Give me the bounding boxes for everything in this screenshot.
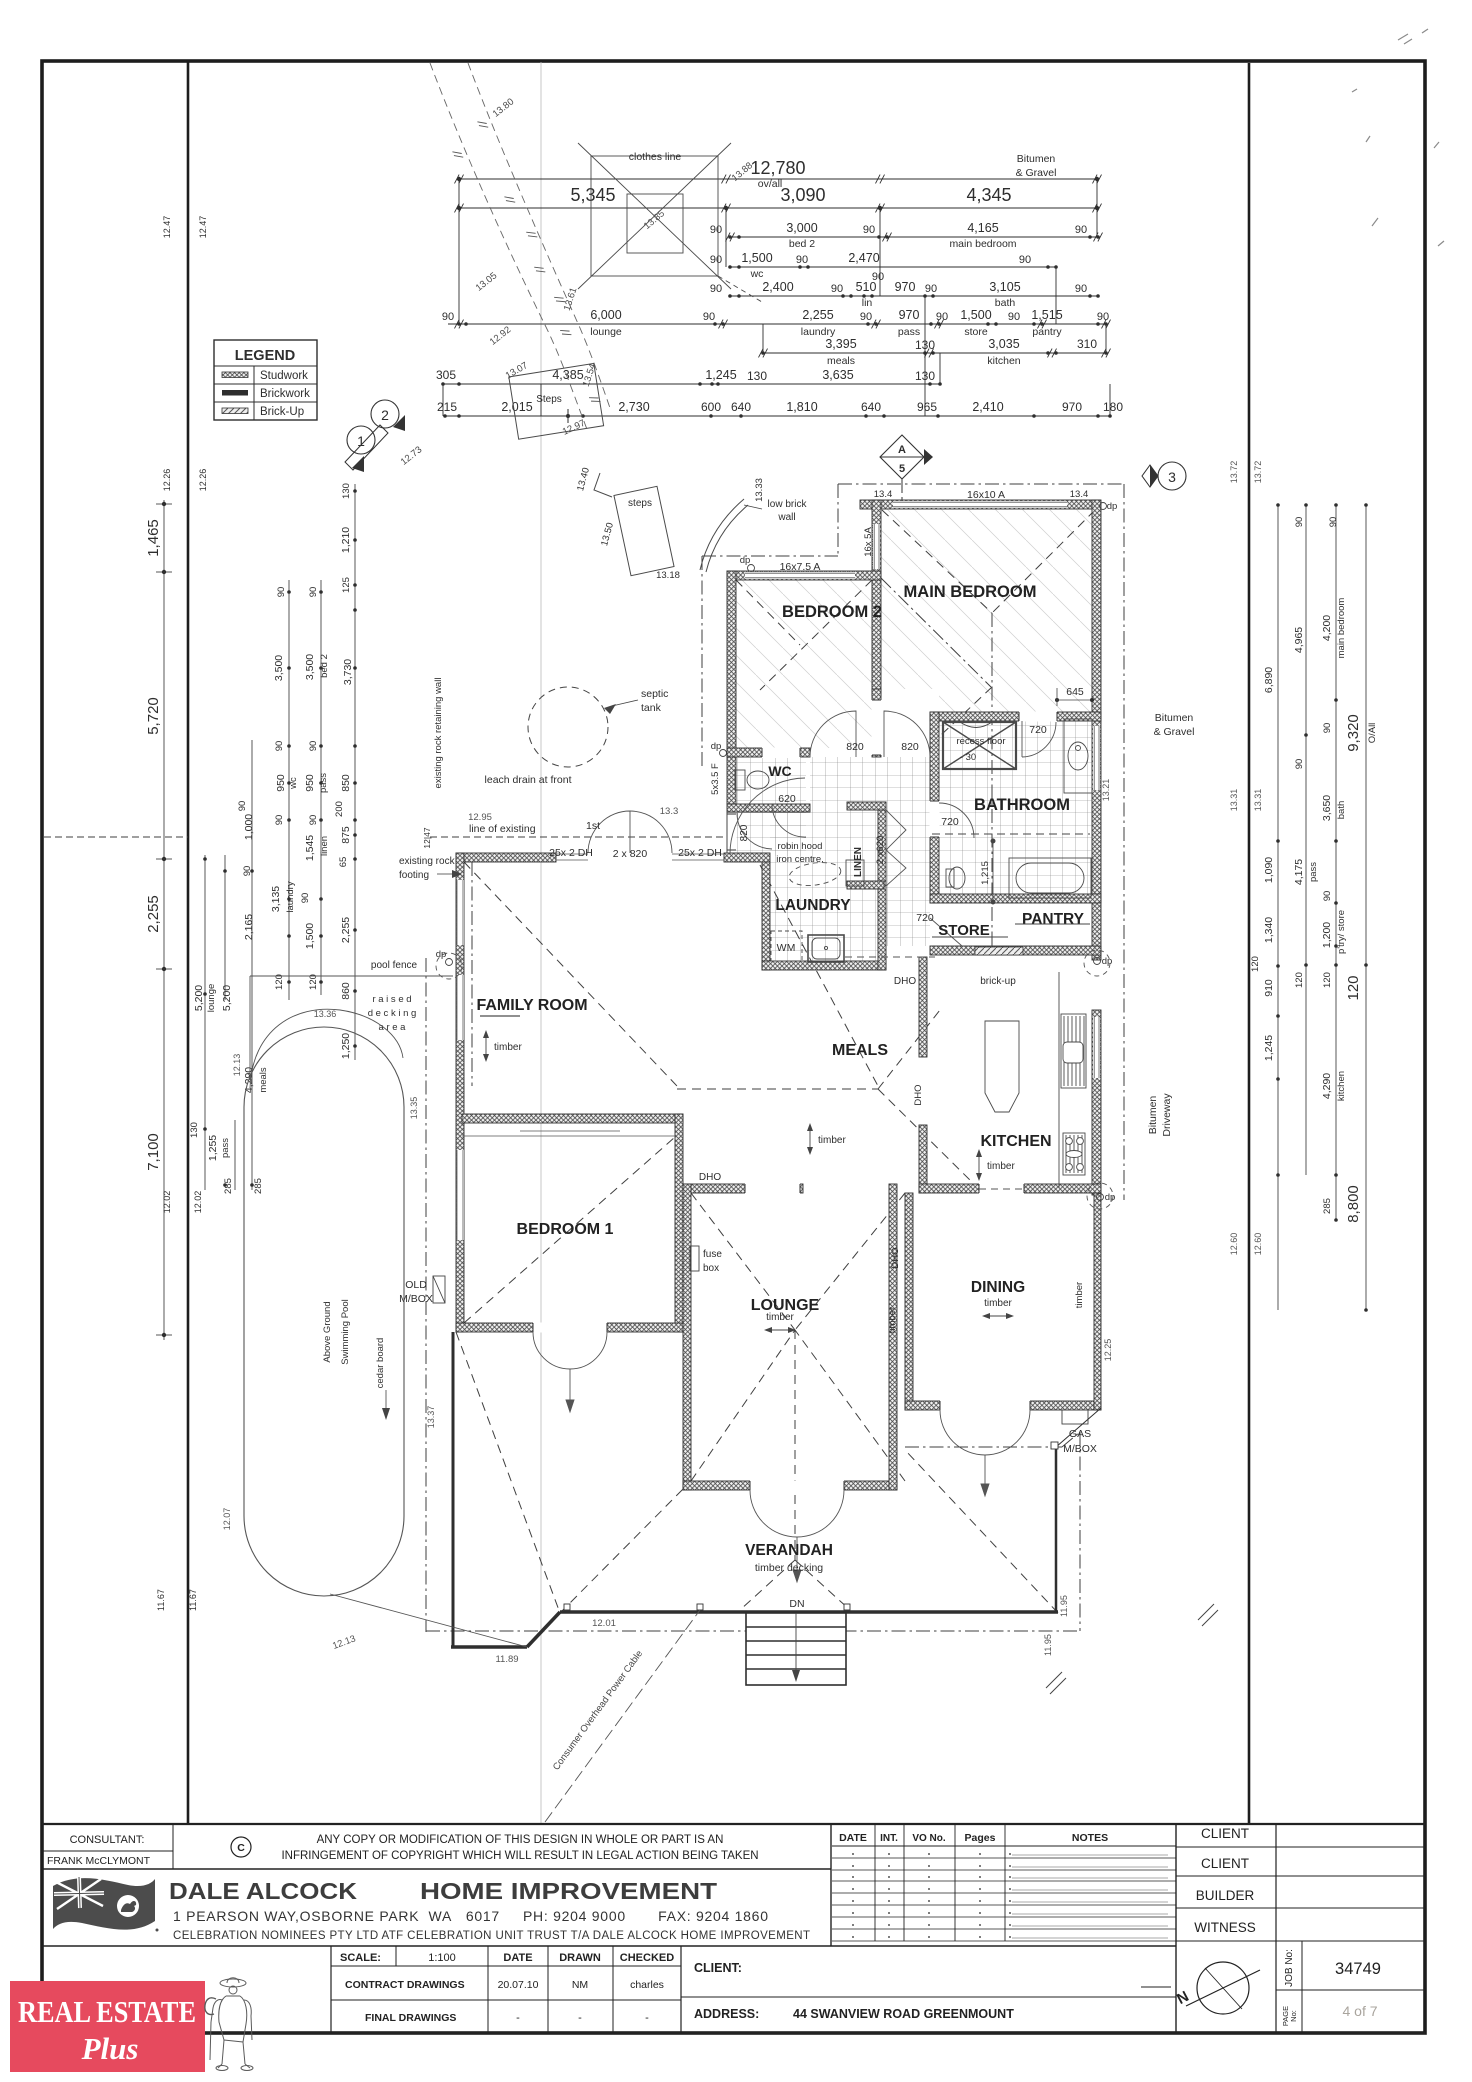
client address bbox=[694, 1961, 1014, 2021]
svg-text:13.21: 13.21 bbox=[1101, 779, 1111, 802]
carpet hatch bedroom 2 bbox=[736, 580, 872, 748]
svg-text:charles: charles bbox=[630, 1979, 664, 1991]
svg-text:1,500: 1,500 bbox=[960, 308, 991, 322]
svg-text:125: 125 bbox=[341, 577, 352, 593]
job number bbox=[1281, 1949, 1381, 2026]
svg-text:5: 5 bbox=[899, 463, 905, 475]
bathroom details bbox=[932, 722, 1090, 937]
svg-text:16x 5A: 16x 5A bbox=[863, 527, 874, 557]
svg-text:No:: No: bbox=[1289, 2010, 1298, 2022]
top dimension line-work bbox=[443, 179, 1110, 416]
svg-text:13.4: 13.4 bbox=[874, 489, 893, 500]
svg-text:LINEN: LINEN bbox=[853, 847, 864, 877]
svg-text:C: C bbox=[237, 1842, 245, 1854]
svg-text:DATE: DATE bbox=[839, 1832, 867, 1844]
svg-text:13.31: 13.31 bbox=[1253, 789, 1263, 812]
svg-text:dp: dp bbox=[1107, 501, 1118, 512]
svg-text:310: 310 bbox=[1077, 337, 1097, 351]
wc south wall bbox=[727, 804, 810, 812]
svg-text:13.72: 13.72 bbox=[1253, 461, 1263, 484]
svg-text:4 of 7: 4 of 7 bbox=[1342, 2003, 1377, 2019]
bathroom west wall bbox=[930, 712, 939, 903]
svg-text:lounge: lounge bbox=[206, 984, 217, 1013]
svg-text:-: - bbox=[578, 2012, 582, 2024]
svg-text:& Gravel: & Gravel bbox=[1016, 167, 1057, 179]
svg-text:2,255: 2,255 bbox=[802, 308, 833, 322]
svg-text:lin: lin bbox=[862, 297, 873, 309]
svg-text:90: 90 bbox=[1019, 254, 1031, 266]
svg-text:BATHROOM: BATHROOM bbox=[974, 796, 1070, 814]
svg-text:Brick-Up: Brick-Up bbox=[260, 406, 304, 418]
svg-text:8,800: 8,800 bbox=[1345, 1185, 1362, 1223]
svg-text:305: 305 bbox=[436, 368, 456, 382]
svg-text:2 x 820: 2 x 820 bbox=[613, 848, 648, 860]
svg-text:WM: WM bbox=[777, 942, 796, 954]
svg-text:5,200: 5,200 bbox=[221, 985, 233, 1011]
svg-text:90: 90 bbox=[274, 815, 285, 826]
svg-text:11.67: 11.67 bbox=[188, 1589, 198, 1611]
house east wall lower (kitchen) bbox=[1092, 1010, 1101, 1195]
svg-text:meals: meals bbox=[258, 1067, 269, 1093]
svg-text:13.18: 13.18 bbox=[656, 570, 680, 581]
svg-text:2,255: 2,255 bbox=[340, 917, 352, 943]
svg-text:M/BOX: M/BOX bbox=[1063, 1443, 1097, 1455]
dale alcock flag logo bbox=[53, 1877, 159, 1932]
svg-text:p'try/ store: p'try/ store bbox=[1336, 910, 1347, 954]
section marker A/5 bbox=[880, 435, 933, 479]
revision table bbox=[832, 1824, 1176, 1941]
svg-text:WC: WC bbox=[768, 763, 791, 779]
svg-text:LAUNDRY: LAUNDRY bbox=[775, 897, 851, 914]
svg-text:90: 90 bbox=[796, 254, 808, 266]
svg-text:FRANK McCLYMONT: FRANK McCLYMONT bbox=[47, 1855, 151, 1867]
svg-text:11.95: 11.95 bbox=[1043, 1634, 1053, 1656]
svg-text:wc: wc bbox=[750, 268, 764, 280]
svg-text:90: 90 bbox=[308, 587, 319, 598]
copyright notice bbox=[231, 1834, 759, 1862]
svg-text:dp: dp bbox=[436, 949, 447, 960]
survey boundary faint vertical bbox=[540, 62, 542, 1824]
svg-text:90: 90 bbox=[1328, 517, 1339, 528]
svg-text:bath: bath bbox=[995, 297, 1016, 309]
svg-text:Driveway: Driveway bbox=[1161, 1093, 1173, 1137]
svg-text:3,105: 3,105 bbox=[989, 280, 1020, 294]
svg-text:DRAWN: DRAWN bbox=[559, 1952, 601, 1964]
svg-text:90: 90 bbox=[703, 311, 715, 323]
wc lobby west line bbox=[726, 812, 728, 853]
store pantry south wall bbox=[930, 946, 1101, 955]
clothes line symbol bbox=[578, 143, 762, 302]
svg-text:main bedroom: main bedroom bbox=[1336, 598, 1347, 659]
svg-text:line of existing: line of existing bbox=[469, 823, 536, 835]
svg-text:NM: NM bbox=[572, 1979, 588, 1991]
svg-text:timber decking: timber decking bbox=[755, 1562, 823, 1574]
svg-text:DHO: DHO bbox=[894, 976, 916, 987]
lounge north wall bbox=[683, 1184, 803, 1193]
steps (driveway) bbox=[509, 363, 604, 439]
svg-text:1st: 1st bbox=[586, 820, 600, 832]
svg-text:4,175: 4,175 bbox=[1293, 859, 1305, 885]
svg-text:2,255: 2,255 bbox=[145, 895, 162, 933]
svg-text:90: 90 bbox=[710, 283, 722, 295]
svg-text:130: 130 bbox=[341, 483, 352, 499]
svg-text:16x10 A: 16x10 A bbox=[967, 489, 1005, 501]
svg-text:dp: dp bbox=[1102, 956, 1113, 967]
svg-text:OLD: OLD bbox=[405, 1279, 427, 1291]
svg-text:box: box bbox=[703, 1263, 719, 1274]
dimension dots bbox=[441, 177, 1112, 418]
svg-text:2,165: 2,165 bbox=[243, 914, 255, 940]
svg-text:12.07: 12.07 bbox=[222, 1508, 232, 1531]
svg-text:7,100: 7,100 bbox=[145, 1133, 162, 1171]
svg-text:120: 120 bbox=[1294, 972, 1305, 988]
svg-text:Steps: Steps bbox=[536, 394, 562, 405]
svg-text:640: 640 bbox=[731, 400, 751, 414]
svg-text:1,245: 1,245 bbox=[1263, 1035, 1275, 1061]
svg-text:WITNESS: WITNESS bbox=[1194, 1920, 1256, 1935]
svg-text:1,215: 1,215 bbox=[980, 861, 991, 885]
svg-text:3,500: 3,500 bbox=[304, 654, 316, 680]
company name bbox=[169, 1878, 810, 1942]
svg-text:12.02: 12.02 bbox=[162, 1191, 172, 1214]
svg-text:90: 90 bbox=[1322, 891, 1333, 902]
main bedroom north wall (16x10 brick) bbox=[860, 500, 1100, 509]
svg-text:timber: timber bbox=[987, 1161, 1015, 1172]
svg-text:820: 820 bbox=[846, 741, 864, 753]
svg-text:timber: timber bbox=[887, 1307, 898, 1333]
svg-text:linen: linen bbox=[319, 836, 330, 856]
svg-text:HOME IMPROVEMENT: HOME IMPROVEMENT bbox=[420, 1878, 717, 1904]
svg-text:Above Ground: Above Ground bbox=[322, 1301, 333, 1362]
svg-text:low brick: low brick bbox=[768, 499, 808, 510]
svg-text:DINING: DINING bbox=[971, 1279, 1025, 1296]
svg-text:90: 90 bbox=[863, 224, 875, 236]
svg-text:120: 120 bbox=[1345, 975, 1362, 1000]
svg-text:3,730: 3,730 bbox=[342, 659, 354, 685]
svg-text:CONSULTANT:: CONSULTANT: bbox=[70, 1834, 145, 1846]
svg-text:DATE: DATE bbox=[503, 1952, 532, 1964]
svg-text:13.3: 13.3 bbox=[660, 806, 679, 817]
svg-text:4,965: 4,965 bbox=[1293, 627, 1305, 653]
svg-text:875: 875 bbox=[340, 826, 352, 844]
svg-text:90: 90 bbox=[831, 283, 843, 295]
svg-text:DALE ALCOCK: DALE ALCOCK bbox=[169, 1878, 357, 1904]
svg-text:CELEBRATION NOMINEES PTY LTD A: CELEBRATION NOMINEES PTY LTD ATF CELEBRA… bbox=[173, 1930, 810, 1942]
wc west wall bbox=[727, 757, 736, 804]
svg-text:90: 90 bbox=[1322, 723, 1333, 734]
svg-text:90: 90 bbox=[925, 283, 937, 295]
svg-text:Brickwork: Brickwork bbox=[260, 388, 310, 400]
doors bbox=[533, 711, 1056, 1582]
svg-text:12.60: 12.60 bbox=[1229, 1233, 1239, 1256]
tile floor bathroom bbox=[939, 721, 1092, 895]
svg-text:90: 90 bbox=[872, 271, 884, 283]
family north wall bbox=[456, 853, 556, 862]
svg-text:285: 285 bbox=[253, 1178, 264, 1194]
svg-text:BUILDER: BUILDER bbox=[1196, 1888, 1255, 1903]
svg-text:12.25: 12.25 bbox=[1103, 1339, 1113, 1362]
svg-text:90: 90 bbox=[242, 866, 253, 877]
svg-text:285: 285 bbox=[1322, 1198, 1333, 1214]
svg-text:- 30: - 30 bbox=[960, 752, 976, 763]
house east wall bbox=[1092, 500, 1101, 960]
svg-text:kitchen: kitchen bbox=[1336, 1071, 1347, 1101]
svg-text:130: 130 bbox=[747, 369, 767, 383]
svg-text:FAMILY ROOM: FAMILY ROOM bbox=[476, 997, 587, 1014]
svg-text:5,200: 5,200 bbox=[193, 985, 205, 1011]
svg-text:CONTRACT DRAWINGS: CONTRACT DRAWINGS bbox=[345, 1979, 465, 1991]
svg-text:lounge: lounge bbox=[590, 326, 622, 338]
svg-text:timber: timber bbox=[818, 1135, 846, 1146]
right dimension labels bbox=[1101, 461, 1378, 1362]
title block grid bbox=[42, 1824, 1425, 2033]
svg-text:1:100: 1:100 bbox=[428, 1952, 456, 1964]
svg-text:main bedroom: main bedroom bbox=[949, 238, 1016, 250]
svg-text:dp: dp bbox=[740, 555, 751, 566]
laundry DHO dashed line bbox=[845, 956, 935, 958]
svg-text:NOTES: NOTES bbox=[1072, 1832, 1108, 1844]
svg-text:BEDROOM 2: BEDROOM 2 bbox=[782, 603, 882, 621]
svg-text:SCALE:: SCALE: bbox=[340, 1952, 381, 1964]
svg-text:13.33: 13.33 bbox=[754, 478, 765, 502]
svg-text:CHECKED: CHECKED bbox=[620, 1952, 674, 1964]
main bedroom west wall bbox=[872, 500, 881, 696]
svg-text:1,500: 1,500 bbox=[304, 923, 316, 949]
top steps bbox=[594, 473, 674, 576]
inner margin line left bbox=[187, 61, 190, 1824]
legend box bbox=[214, 340, 317, 420]
left dimension labels bbox=[145, 216, 354, 1611]
svg-text:720: 720 bbox=[941, 816, 959, 828]
svg-text:65: 65 bbox=[338, 857, 349, 868]
Bitumen & Gravel (top right) bbox=[1016, 153, 1057, 179]
svg-text:12,780: 12,780 bbox=[750, 158, 805, 178]
svg-text:VERANDAH: VERANDAH bbox=[745, 1542, 833, 1559]
svg-text:existing rock: existing rock bbox=[399, 856, 456, 867]
svg-text:12.60: 12.60 bbox=[1253, 1233, 1263, 1256]
svg-text:12.02: 12.02 bbox=[193, 1191, 203, 1214]
svg-text:970: 970 bbox=[899, 308, 920, 322]
svg-text:720: 720 bbox=[916, 912, 934, 924]
svg-text:12.47: 12.47 bbox=[198, 216, 208, 239]
svg-text:860: 860 bbox=[340, 982, 352, 1000]
svg-text:11.95: 11.95 bbox=[1059, 1595, 1069, 1617]
svg-text:130: 130 bbox=[915, 338, 935, 352]
svg-text:pool fence: pool fence bbox=[371, 960, 418, 971]
svg-text:GAS: GAS bbox=[1069, 1428, 1091, 1440]
lounge south wall bbox=[683, 1481, 897, 1490]
svg-text:90: 90 bbox=[1008, 311, 1020, 323]
svg-text:4,165: 4,165 bbox=[967, 221, 998, 235]
door gaps bbox=[533, 700, 1057, 1491]
svg-text:90: 90 bbox=[237, 801, 248, 812]
svg-text:90: 90 bbox=[442, 311, 454, 323]
svg-text:3: 3 bbox=[1168, 469, 1176, 485]
svg-text:JOB No:: JOB No: bbox=[1284, 1949, 1295, 1987]
scale table text bbox=[340, 1952, 674, 2024]
tile floor laundry bbox=[770, 810, 878, 961]
svg-text:90: 90 bbox=[1097, 311, 1109, 323]
svg-text:1,090: 1,090 bbox=[1263, 857, 1275, 883]
bedroom1 east wall bbox=[675, 1114, 683, 1332]
svg-text:90: 90 bbox=[1075, 224, 1087, 236]
svg-text:640: 640 bbox=[861, 400, 881, 414]
svg-text:44 SWANVIEW ROAD GREENMOUNT: 44 SWANVIEW ROAD GREENMOUNT bbox=[793, 2007, 1014, 2021]
family/bed1 dividing wall bbox=[462, 1114, 683, 1123]
svg-text:bed 2: bed 2 bbox=[319, 654, 330, 678]
svg-text:DHO: DHO bbox=[913, 1084, 924, 1105]
svg-text:Pages: Pages bbox=[965, 1832, 996, 1844]
linen north wall bbox=[847, 802, 886, 810]
svg-text:720: 720 bbox=[1029, 724, 1047, 736]
svg-text:34749: 34749 bbox=[1335, 1960, 1381, 1978]
svg-text:3,135: 3,135 bbox=[270, 886, 282, 912]
svg-text:965: 965 bbox=[917, 400, 937, 414]
svg-text:12.47: 12.47 bbox=[162, 216, 172, 239]
svg-text:2,015: 2,015 bbox=[501, 400, 532, 414]
top dimension labels bbox=[436, 158, 1123, 414]
svg-text:BEDROOM 1: BEDROOM 1 bbox=[517, 1221, 614, 1238]
svg-text:1,465: 1,465 bbox=[145, 519, 162, 557]
svg-text:4,200: 4,200 bbox=[1321, 615, 1333, 641]
svg-text:DHO: DHO bbox=[699, 1172, 721, 1183]
svg-text:septic: septic bbox=[641, 688, 668, 700]
svg-text:120: 120 bbox=[1322, 972, 1333, 988]
svg-text:O/All: O/All bbox=[1367, 723, 1378, 744]
svg-text:950: 950 bbox=[275, 774, 287, 792]
site marker 3 bbox=[1158, 462, 1186, 490]
svg-text:kitchen: kitchen bbox=[987, 355, 1020, 367]
signature labels bbox=[1176, 1826, 1425, 1941]
svg-text:90: 90 bbox=[308, 741, 319, 752]
svg-text:2,400: 2,400 bbox=[762, 280, 793, 294]
north compass bbox=[1141, 1962, 1260, 2014]
plan annotations bbox=[222, 466, 1097, 1665]
svg-text:MEALS: MEALS bbox=[832, 1042, 888, 1059]
svg-text:timber: timber bbox=[1074, 1282, 1085, 1308]
tile hatch hall bbox=[810, 757, 930, 946]
window lines bbox=[457, 854, 725, 1240]
laundry west wall bbox=[762, 862, 770, 970]
svg-text:970: 970 bbox=[895, 280, 916, 294]
svg-text:12.95: 12.95 bbox=[468, 812, 492, 823]
svg-text:timber: timber bbox=[494, 1042, 522, 1053]
svg-text:12.01: 12.01 bbox=[592, 1618, 616, 1629]
lounge east wall bbox=[889, 1184, 897, 1490]
lounge west wall bbox=[683, 1184, 691, 1490]
bathroom north wall bbox=[930, 712, 1101, 721]
svg-text:90: 90 bbox=[300, 893, 311, 904]
svg-text:9,320: 9,320 bbox=[1345, 714, 1362, 752]
svg-text:a r e a: a r e a bbox=[379, 1022, 407, 1033]
carpet hatch main bedroom (light floor diagonals) bbox=[881, 509, 1092, 712]
svg-text:20.07.10: 20.07.10 bbox=[498, 1979, 539, 1991]
svg-text:850: 850 bbox=[340, 774, 352, 792]
svg-text:r a i s e d: r a i s e d bbox=[372, 994, 411, 1005]
verandah deck outline bbox=[451, 1332, 1101, 1647]
svg-text:1 PEARSON WAY,OSBORNE PARK WA: 1 PEARSON WAY,OSBORNE PARK WA 6017 PH: 9… bbox=[173, 1908, 768, 1924]
window overlays on walls bbox=[745, 501, 1100, 1078]
wc north wall bbox=[727, 748, 810, 757]
svg-text:90: 90 bbox=[1294, 759, 1305, 770]
svg-text:13.72: 13.72 bbox=[1229, 461, 1239, 484]
svg-text:13.31: 13.31 bbox=[1229, 789, 1239, 812]
bedroom1 south wall bbox=[456, 1323, 683, 1332]
svg-text:90: 90 bbox=[710, 254, 722, 266]
svg-text:fuse: fuse bbox=[703, 1249, 722, 1260]
svg-text:dp: dp bbox=[711, 741, 722, 752]
svg-text:Studwork: Studwork bbox=[260, 370, 308, 382]
svg-text:1,200: 1,200 bbox=[1321, 922, 1333, 948]
svg-text:VO No.: VO No. bbox=[912, 1833, 946, 1844]
svg-text:820: 820 bbox=[901, 741, 919, 753]
svg-text:Bitumen: Bitumen bbox=[1155, 712, 1194, 724]
svg-text:130: 130 bbox=[189, 1122, 200, 1138]
svg-text:robin hood: robin hood bbox=[778, 841, 823, 852]
svg-text:12.26: 12.26 bbox=[162, 469, 172, 492]
bedroom 2 west wall bbox=[727, 571, 736, 757]
svg-text:wc: wc bbox=[288, 777, 299, 790]
svg-text:3,635: 3,635 bbox=[822, 368, 853, 382]
downpipe symbols bbox=[436, 501, 1118, 1209]
svg-text:Bitumen: Bitumen bbox=[1147, 1096, 1159, 1135]
fixtures bbox=[735, 719, 1092, 1188]
svg-text:90: 90 bbox=[860, 311, 872, 323]
svg-text:INFRINGEMENT OF COPYRIGHT WHIC: INFRINGEMENT OF COPYRIGHT WHICH WILL RES… bbox=[281, 1850, 758, 1862]
svg-text:1,515: 1,515 bbox=[1031, 308, 1062, 322]
svg-text:Bitumen: Bitumen bbox=[1017, 153, 1056, 165]
svg-text:13.4: 13.4 bbox=[1070, 489, 1089, 500]
svg-text:12|47: 12|47 bbox=[422, 827, 432, 848]
svg-text:INT.: INT. bbox=[880, 1833, 898, 1844]
svg-text:pass: pass bbox=[1308, 862, 1319, 882]
family west wall bbox=[456, 853, 464, 1332]
linen south wall bbox=[847, 881, 884, 889]
svg-text:90: 90 bbox=[936, 311, 948, 323]
meals/kitchen wall bbox=[919, 957, 927, 1057]
inner margin line right bbox=[1248, 63, 1251, 1824]
svg-text:laundry: laundry bbox=[285, 881, 296, 912]
svg-text:820: 820 bbox=[739, 824, 750, 841]
kitchen south wall bbox=[919, 1184, 1101, 1193]
dimension double ticks bbox=[455, 175, 1111, 358]
svg-text:A: A bbox=[898, 444, 906, 456]
tile floor wc lobby bbox=[727, 812, 806, 856]
svg-text:FINAL DRAWINGS: FINAL DRAWINGS bbox=[365, 2012, 456, 2024]
svg-text:90: 90 bbox=[1294, 517, 1305, 528]
svg-text:meals: meals bbox=[827, 355, 855, 367]
svg-text:90: 90 bbox=[710, 224, 722, 236]
svg-text:d e c k i n g: d e c k i n g bbox=[368, 1008, 417, 1019]
room labels bbox=[476, 583, 1084, 1574]
family north wall 2 bbox=[724, 853, 770, 862]
svg-text:90: 90 bbox=[274, 741, 285, 752]
svg-text:iron centre.: iron centre. bbox=[776, 854, 824, 865]
svg-text:existing rock retaining wall: existing rock retaining wall bbox=[433, 678, 444, 789]
brick-up wall segment bbox=[975, 947, 1023, 955]
svg-text:6,000: 6,000 bbox=[590, 308, 621, 322]
bedroom 2 north wall bbox=[727, 571, 881, 580]
svg-text:4,290: 4,290 bbox=[1321, 1073, 1333, 1099]
consumer overhead power cable bbox=[545, 1610, 700, 1822]
svg-text:13.36: 13.36 bbox=[314, 1009, 337, 1019]
svg-text:cedar board: cedar board bbox=[375, 1338, 386, 1389]
svg-text:wall: wall bbox=[777, 512, 795, 523]
svg-text:DN: DN bbox=[789, 1598, 804, 1610]
consultant cell bbox=[47, 1834, 151, 1867]
svg-text:645: 645 bbox=[1066, 686, 1084, 698]
svg-text:5,720: 5,720 bbox=[145, 697, 162, 735]
